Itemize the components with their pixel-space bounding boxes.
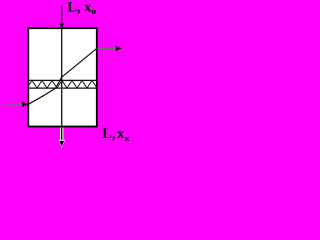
left inlet arrow shaft (6, 103, 24, 105)
bottom outlet arrowhead (59, 141, 64, 147)
top inlet arrow shaft (61, 6, 63, 25)
left inlet arrowhead (22, 102, 28, 107)
column vessel body (28, 28, 97, 126)
right outlet arrowhead (116, 46, 122, 51)
packing band bottom line (28, 87, 98, 89)
bottom outlet arrow shaft (61, 127, 63, 142)
packing zigzag (28, 80, 97, 88)
right outlet arrow shaft (98, 47, 117, 49)
center partition line (61, 28, 63, 126)
packing band top line (28, 79, 98, 81)
bottom outlet arrowhead halo (58, 140, 65, 148)
top inlet arrowhead (59, 23, 64, 29)
bottom outlet arrow halo (60, 128, 63, 144)
gas flow diagonal line (29, 48, 97, 104)
